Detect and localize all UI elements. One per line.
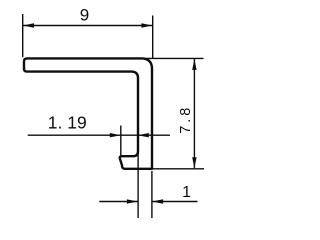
profile outline (L-section with foot) — [24, 58, 152, 168]
svg-text:9: 9 — [80, 5, 89, 24]
arrowhead 1.19 pointing left — [138, 133, 149, 137]
extension line left (dim 9) — [22, 14, 24, 57]
extension line right (dim 1) — [151, 171, 153, 218]
arrowhead 1 pointing left — [152, 199, 163, 203]
extension line top (dim 7.8) — [142, 57, 204, 59]
arrowhead 1.19 pointing right — [110, 133, 121, 137]
dimension leader right (dim 1) — [152, 201, 197, 203]
dimension line 7.8 — [193, 59, 195, 168]
dimension line 9 — [23, 25, 152, 27]
arrowhead 9 left — [23, 23, 34, 27]
arrowhead 9 right — [141, 23, 152, 27]
arrowhead 7.8 down — [192, 157, 196, 168]
extension line bottom (dim 7.8) — [152, 168, 204, 170]
arrowhead 7.8 up — [192, 59, 196, 70]
dimension line 1.19 — [28, 134, 170, 136]
extension line left (dim 1) — [137, 152, 139, 218]
svg-text:1: 1 — [182, 184, 191, 201]
extension line for 1.19 (foot left edge) — [120, 126, 122, 157]
dimension leader left (dim 1) — [99, 201, 138, 203]
extension line right (dim 9) — [152, 16, 154, 59]
svg-text:1. 19: 1. 19 — [48, 112, 87, 132]
svg-text:7.8: 7.8 — [178, 105, 194, 134]
arrowhead 1 pointing right — [127, 199, 138, 203]
